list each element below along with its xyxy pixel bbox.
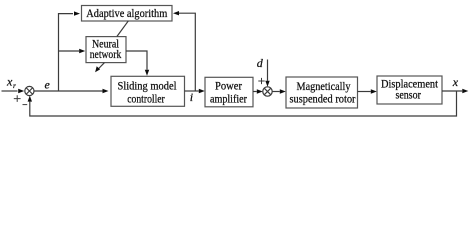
node minus sign at S1	[23, 104, 28, 106]
svg-text:network: network	[90, 49, 122, 61]
svg-text:amplifier: amplifier	[210, 94, 247, 106]
block: Sliding model controller	[111, 76, 185, 106]
svg-text:controller: controller	[127, 94, 165, 106]
svg-text:x: x	[452, 75, 459, 89]
svg-text:Magnetically: Magnetically	[297, 81, 351, 93]
svg-text:i: i	[190, 90, 193, 104]
wire branch from e vertical to neural network	[59, 50, 80, 52]
wire output x	[442, 90, 462, 92]
node x_s input label	[6, 75, 16, 90]
wire branch from e up to adaptive algorithm	[59, 14, 74, 91]
wire tuning line adaptive algorithm to neural network	[117, 21, 128, 37]
svg-text:Adaptive algorithm: Adaptive algorithm	[86, 8, 167, 20]
node plus sign at S2	[258, 78, 264, 84]
block: Magnetically suspended rotor	[286, 77, 358, 108]
summing junction S1	[25, 86, 34, 95]
wire e from S1 to sliding model controller	[34, 90, 103, 92]
svg-text:sensor: sensor	[395, 90, 421, 102]
svg-text:Sliding model: Sliding model	[118, 81, 177, 93]
node plus sign at S1	[14, 95, 21, 102]
wire d disturbance into S2	[267, 60, 269, 81]
wire power amplifier to summing junction S2	[253, 91, 257, 93]
wire rotor to displacement sensor	[358, 91, 371, 93]
svg-text:e: e	[45, 78, 51, 92]
wire input to summing junction S1	[2, 90, 18, 92]
block: Power amplifier	[205, 77, 253, 107]
svg-text:Power: Power	[215, 81, 242, 93]
svg-text:d: d	[257, 56, 264, 70]
block: Neural network	[86, 37, 126, 63]
svg-text:x: x	[6, 75, 13, 89]
wire tuning arrow out of neural network bottom	[98, 63, 104, 69]
svg-text:suspended rotor: suspended rotor	[290, 94, 356, 106]
svg-text:r: r	[13, 81, 16, 90]
wire feedback from output to S1	[30, 91, 457, 116]
block: Displacement sensor	[377, 76, 442, 104]
wire neural network output to sliding model controller	[126, 51, 147, 70]
wire S2 to magnetically suspended rotor	[272, 91, 280, 93]
summing junction S2	[263, 87, 272, 96]
block: Adaptive algorithm	[82, 6, 173, 22]
wire branch from i up to adaptive algorithm right side	[179, 13, 195, 91]
wire i from sliding model controller to power amplifier	[185, 90, 199, 92]
